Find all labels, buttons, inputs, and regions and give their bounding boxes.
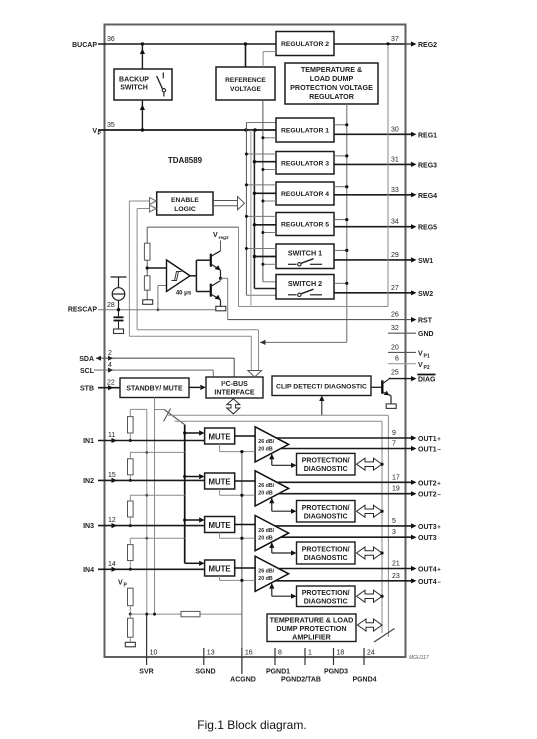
protection diagnostic block 3 [297,542,356,564]
mute 4 output wire [235,567,255,569]
regulator 4 enable stub [263,200,276,202]
enable logic block [157,192,213,215]
svg-text:P1: P1 [424,354,430,360]
svg-text:V: V [213,232,218,239]
svg-text:MGU117: MGU117 [409,655,429,661]
svg-text:17: 17 [392,474,400,481]
svg-text:TDA8589: TDA8589 [168,156,203,165]
svg-text:26 dB/: 26 dB/ [258,483,274,489]
svg-text:+: + [437,568,441,574]
switch 2 protection stub [334,282,347,284]
SVR series resistor [181,611,200,616]
op-amp A3 [255,516,289,551]
svg-text:REGULATOR 5: REGULATOR 5 [281,222,329,229]
svg-text:PGND3: PGND3 [324,669,348,676]
inverting input wire 2 [242,494,255,496]
svg-text:DIAG: DIAG [418,377,436,384]
input resistor R-IN2 [128,459,134,475]
mute 4 ground path [219,576,221,580]
svg-text:REFERENCE: REFERENCE [225,77,266,84]
regulator 1 block [276,118,334,142]
svg-text:9: 9 [392,430,396,437]
pin 17 OUT2+ wire [277,481,411,483]
svg-text:PGND4: PGND4 [352,677,376,684]
regulator 2 block [276,32,334,56]
svg-text:CLIP DETECT/ DIAGNOSTIC: CLIP DETECT/ DIAGNOSTIC [276,384,367,391]
svg-text:SGND: SGND [195,669,215,676]
op-amp A1 [255,427,289,462]
svg-text:SWITCH: SWITCH [120,85,148,92]
diagnostic bus arrow 4 [357,590,383,602]
svg-text:VOLTAGE: VOLTAGE [230,86,261,93]
svg-text:33: 33 [391,187,399,194]
regulator 5 protection stub [334,219,347,221]
op-amp A4 [255,556,289,591]
pin 20 VP1 wire [388,351,416,353]
svg-text:19: 19 [392,486,400,493]
svg-text:SCL: SCL [80,368,95,375]
svg-text:MUTE: MUTE [209,433,231,442]
regulator 3 supply stub [254,161,276,163]
protection diagnostic wire 3 [271,543,273,553]
svg-text:MUTE: MUTE [209,565,231,574]
svg-text:29: 29 [391,252,399,259]
regulator 1 protection stub [334,124,347,126]
svg-text:30: 30 [391,126,399,133]
regulator 4 reference stub [246,184,276,186]
svg-text:1: 1 [308,650,312,657]
protection diagnostic block 2 [297,501,356,523]
pin 12 IN3 wire [98,525,205,527]
svg-text:RESCAP: RESCAP [68,307,98,314]
svg-text:11: 11 [108,432,115,439]
svg-text:13: 13 [207,650,215,657]
switch 1 block [276,244,334,269]
bias resistor R-VPb [128,618,134,637]
svg-text:24: 24 [367,650,375,657]
protection diagnostic wire 1 [271,454,273,465]
switch 1 enable stub [263,263,276,265]
svg-text:REGULATOR 2: REGULATOR 2 [281,41,329,48]
regulator 3 enable stub [263,169,276,171]
svg-text:REG2: REG2 [418,42,437,49]
standby mute block [120,378,189,398]
pin 28 RESCAP wire [118,300,120,309]
svg-text:SWITCH 2: SWITCH 2 [288,279,322,288]
comparator output to RST [221,277,228,279]
svg-text:3: 3 [392,529,396,536]
svg-text:MUTE: MUTE [209,521,231,530]
svg-text:REG5: REG5 [418,225,437,232]
i2c to mute rails double arrow [227,399,240,414]
svg-text:26 dB/: 26 dB/ [258,569,274,575]
divider resistor R1 [144,243,150,260]
svg-text:20 dB: 20 dB [258,447,273,453]
svg-text:32: 32 [391,325,399,332]
svg-text:−: − [437,448,441,454]
svg-text:22: 22 [107,380,115,387]
svg-text:15: 15 [108,472,116,479]
mute 2 ground path [219,489,221,495]
svg-text:OUT1: OUT1 [418,447,437,454]
protection diagnostic block 4 [297,586,356,607]
diagnostic bus arrow 2 [357,505,383,517]
svg-text:MUTE: MUTE [209,478,231,487]
reference rail A [245,123,247,296]
svg-text:12: 12 [108,517,116,524]
svg-text:21: 21 [392,561,400,568]
transistor Q2 [210,284,212,297]
svg-text:16: 16 [245,650,253,657]
pin 10 SVR [146,614,148,665]
VP tick above current source [118,278,120,288]
svg-text:26 dB/: 26 dB/ [258,528,274,534]
svg-text:REGULATOR: REGULATOR [309,92,355,101]
svg-text:LOGIC: LOGIC [174,206,196,213]
svg-text:IN2: IN2 [83,478,94,485]
svg-text:PROTECTION VOLTAGE: PROTECTION VOLTAGE [290,83,373,92]
pin 5 OUT3+ wire [275,525,411,527]
svg-text:+: + [437,525,441,531]
pin 29 SW1 output wire [334,259,411,261]
backup switch [114,69,172,100]
pin 22 STB wire [98,387,120,389]
svg-text:SW2: SW2 [418,291,433,298]
svg-text:REG1: REG1 [418,132,437,139]
regulator 3 protection stub [334,155,347,157]
svg-text:PGND1: PGND1 [266,669,290,676]
svg-text:IN4: IN4 [83,567,94,574]
reference voltage block [216,67,275,100]
svg-text:REG4: REG4 [418,193,437,200]
diag transistor Q3 [371,386,382,388]
mute block 2 [185,476,199,478]
svg-text:ENABLE: ENABLE [171,197,199,204]
bus slash bottom [374,629,395,643]
svg-text:36: 36 [107,36,115,43]
i2c bus interface block [206,377,263,398]
svg-text:V: V [418,351,423,358]
svg-text:−: − [437,493,441,499]
svg-text:OUT4: OUT4 [418,567,437,574]
svg-text:LOAD DUMP: LOAD DUMP [310,74,354,83]
enable logic input arrow A [128,201,130,336]
pin 18 PGND3 [333,648,335,665]
svg-text:PROTECTION/: PROTECTION/ [302,458,350,465]
svg-text:31: 31 [391,156,399,163]
REG2 stub to reference [263,51,276,53]
pin 8 PGND1 [274,648,276,665]
inverting input wire 4 [242,579,255,581]
switch 1 supply stub [254,256,276,258]
svg-text:34: 34 [391,219,399,226]
pin 19 OUT2- wire [279,493,411,495]
svg-text:STANDBY/ MUTE: STANDBY/ MUTE [126,386,183,393]
mute block 1 [185,432,199,434]
svg-text:25: 25 [391,370,399,377]
protection diagnostic wire 4 [271,584,273,597]
svg-text:P2: P2 [424,365,430,371]
svg-text:SWITCH 1: SWITCH 1 [288,249,322,258]
current source I1 [112,288,125,301]
enable rail C from reference voltage [262,100,264,282]
pin 14 IN4 wire [98,568,205,570]
svg-text:7: 7 [392,441,396,448]
divider resistor R2 [144,276,150,290]
pin 3 OUT3- wire [281,536,411,538]
transistor Q1 [210,254,212,267]
svg-text:6: 6 [395,356,399,363]
svg-text:5: 5 [392,518,396,525]
SVR line [130,613,242,615]
svg-text:REGULATOR 4: REGULATOR 4 [281,191,329,198]
ground rescap [114,329,124,334]
pin 35 VP wire [98,129,276,131]
pin 4 SCL wire [94,369,213,371]
svg-text:4: 4 [108,362,112,369]
capacitor C-rescap [118,310,120,317]
svg-text:BACKUP: BACKUP [119,77,149,84]
input bias rail [146,409,148,614]
svg-text:SDA: SDA [79,356,94,363]
svg-text:SW1: SW1 [418,258,433,265]
mute 2 output wire [235,480,255,482]
clip detect diagnostic block [272,376,371,396]
regulator 5 enable stub [263,232,276,234]
regulator 4 block [276,182,334,205]
Vreg2 rail [147,226,238,228]
pin 34 REG5 output wire [334,226,411,228]
svg-text:20 dB: 20 dB [258,535,273,541]
switch 1 reference stub [246,248,276,250]
pin 11 IN1 wire [98,440,205,442]
wire BUCAP to reference voltage [245,44,247,67]
svg-text:20 dB: 20 dB [258,576,273,582]
input resistor R-IN1 [128,417,134,433]
svg-text:SVR: SVR [139,669,153,676]
ground Q2 emitter [216,306,226,311]
clip detect input arrow [321,400,323,415]
svg-text:20: 20 [391,344,399,351]
pin 31 REG3 output wire [334,163,411,165]
svg-text:DIAGNOSTIC: DIAGNOSTIC [304,513,348,520]
regulator 5 supply stub [254,224,276,226]
standby drop wire [154,398,156,615]
regulator 5 block [276,213,334,236]
inverting input wire 3 [242,537,255,539]
svg-text:REG3: REG3 [418,162,437,169]
op-amp A2 [255,471,289,506]
svg-text:18: 18 [337,650,345,657]
mute block 4 [185,562,199,564]
protection rail [346,104,348,342]
regulator 4 protection stub [334,186,347,188]
pin 9 OUT1+ wire [276,437,411,439]
pin 37 REG2 output wire [334,43,405,45]
arrow standby to i2c [189,386,200,388]
pin 30 REG1 output wire [334,133,411,135]
svg-text:23: 23 [392,573,400,580]
diagnostic bus arrow 3 [357,547,383,559]
svg-text:27: 27 [391,285,399,292]
mute 3 output wire [235,524,255,526]
svg-text:PROTECTION/: PROTECTION/ [302,547,350,554]
bias resistor R-VPa [129,587,131,590]
svg-text:V: V [118,580,123,587]
svg-text:IN3: IN3 [83,523,94,530]
svg-text:REGULATOR 3: REGULATOR 3 [281,160,329,167]
ground divider [143,300,153,305]
svg-text:PGND2/TAB: PGND2/TAB [281,677,321,684]
ACGND rail [241,452,243,674]
pin 2 SDA wire [96,357,234,359]
svg-text:+: + [437,481,441,487]
svg-text:AMPLIFIER: AMPLIFIER [292,633,332,642]
mute 3 ground path [219,533,221,539]
svg-text:14: 14 [108,561,116,568]
svg-text:2: 2 [108,350,112,357]
pin 16 ACGND [241,648,243,674]
svg-text:DIAGNOSTIC: DIAGNOSTIC [304,555,348,562]
svg-text:37: 37 [391,36,399,43]
temperature load dump protection amplifier block [267,614,356,642]
svg-text:OUT1: OUT1 [418,436,437,443]
svg-text:DIAGNOSTIC: DIAGNOSTIC [304,466,348,473]
pin 27 SW2 output wire [334,292,411,294]
svg-text:OUT4: OUT4 [418,579,437,586]
svg-text:TEMPERATURE &: TEMPERATURE & [301,65,362,74]
svg-text:reg2: reg2 [219,235,229,241]
pin 26 RST wire [228,319,411,321]
svg-text:ACGND: ACGND [230,677,256,684]
regulator 5 reference stub [246,215,276,217]
pin 15 IN2 wire [98,479,205,481]
VP rail B [253,130,255,289]
svg-text:OUT2: OUT2 [418,492,437,499]
pin 32 GND wire [388,332,416,334]
protection diagnostic wire 2 [271,498,273,511]
mute 1 output wire [235,435,255,437]
frame rail top [239,306,389,308]
svg-text:STB: STB [80,386,94,393]
schmitt trigger comparator [147,267,166,269]
pin 1 PGND2/TAB [304,648,306,665]
svg-text:V: V [418,362,423,369]
svg-text:PROTECTION/: PROTECTION/ [302,505,350,512]
svg-text:Fig.1 Block diagram.: Fig.1 Block diagram. [197,718,306,732]
svg-text:−: − [437,580,441,586]
regulator 4 supply stub [254,192,276,194]
svg-text:IN1: IN1 [83,438,94,445]
svg-text:BUCAP: BUCAP [72,42,97,49]
pin 21 OUT4+ wire [279,568,411,570]
pin 23 OUT4- wire [275,580,411,582]
mute block 3 [185,519,199,521]
svg-text:OUT3: OUT3 [418,535,437,542]
svg-text:OUT3: OUT3 [418,524,437,531]
mute rail A [168,414,388,416]
ground bias [125,642,135,647]
transistor pair base drive [190,275,196,277]
svg-text:DIAGNOSTIC: DIAGNOSTIC [304,598,348,605]
svg-text:26 dB/: 26 dB/ [258,439,274,445]
svg-text:PROTECTION/: PROTECTION/ [302,590,350,597]
svg-text:INTERFACE: INTERFACE [214,389,254,397]
enable logic output arrow [214,200,238,202]
svg-text:I2C-BUS: I2C-BUS [221,380,248,388]
temp amp bus arrow [358,619,383,631]
rail D [250,130,252,306]
pin 25 DIAG wire [389,378,411,380]
svg-text:40 μs: 40 μs [176,291,192,297]
inverting input wire 1 [242,451,255,453]
mute 1 ground path [219,444,221,452]
diagnostic bus arrow 1 [357,458,383,470]
input resistor R-IN3 [128,501,134,517]
svg-text:28: 28 [107,302,115,309]
wire backup switch vertical [141,44,143,69]
regulator 3 reference stub [246,153,276,155]
pin 6 VP2 wire [388,363,416,365]
pin 33 REG4 output wire [334,194,411,196]
enable logic input arrow B [136,209,138,330]
temperature load dump protection voltage regulator block [285,63,378,104]
svg-text:OUT2: OUT2 [418,480,437,487]
IC outline TDA8589 [105,25,406,658]
svg-text:35: 35 [107,122,115,129]
reset lines to i2c arrow head [248,371,262,378]
mute control diagonal [155,409,165,411]
regulator 3 block [276,152,334,175]
pin 36 BUCAP wire [98,43,276,45]
mute bus vertical [184,425,186,564]
pin 24 PGND4 [363,648,365,665]
mute rail B [175,420,383,422]
svg-text:GND: GND [418,331,434,338]
switch 2 block [276,275,334,300]
svg-text:26: 26 [391,312,399,319]
svg-text:REGULATOR 1: REGULATOR 1 [281,128,329,135]
ground diag emitter [386,404,396,409]
input resistor R-IN4 [128,545,134,561]
pin 7 OUT1- wire [281,448,411,450]
svg-text:10: 10 [150,650,158,657]
svg-text:RST: RST [418,318,433,325]
svg-text:+: + [437,437,441,443]
protection diagnostic block 1 [297,453,356,475]
pin 13 SGND [203,648,205,665]
regulator 1 enable stub [263,137,276,139]
switch 1 protection stub [334,249,347,251]
svg-text:20 dB: 20 dB [258,491,273,497]
svg-text:8: 8 [278,650,282,657]
